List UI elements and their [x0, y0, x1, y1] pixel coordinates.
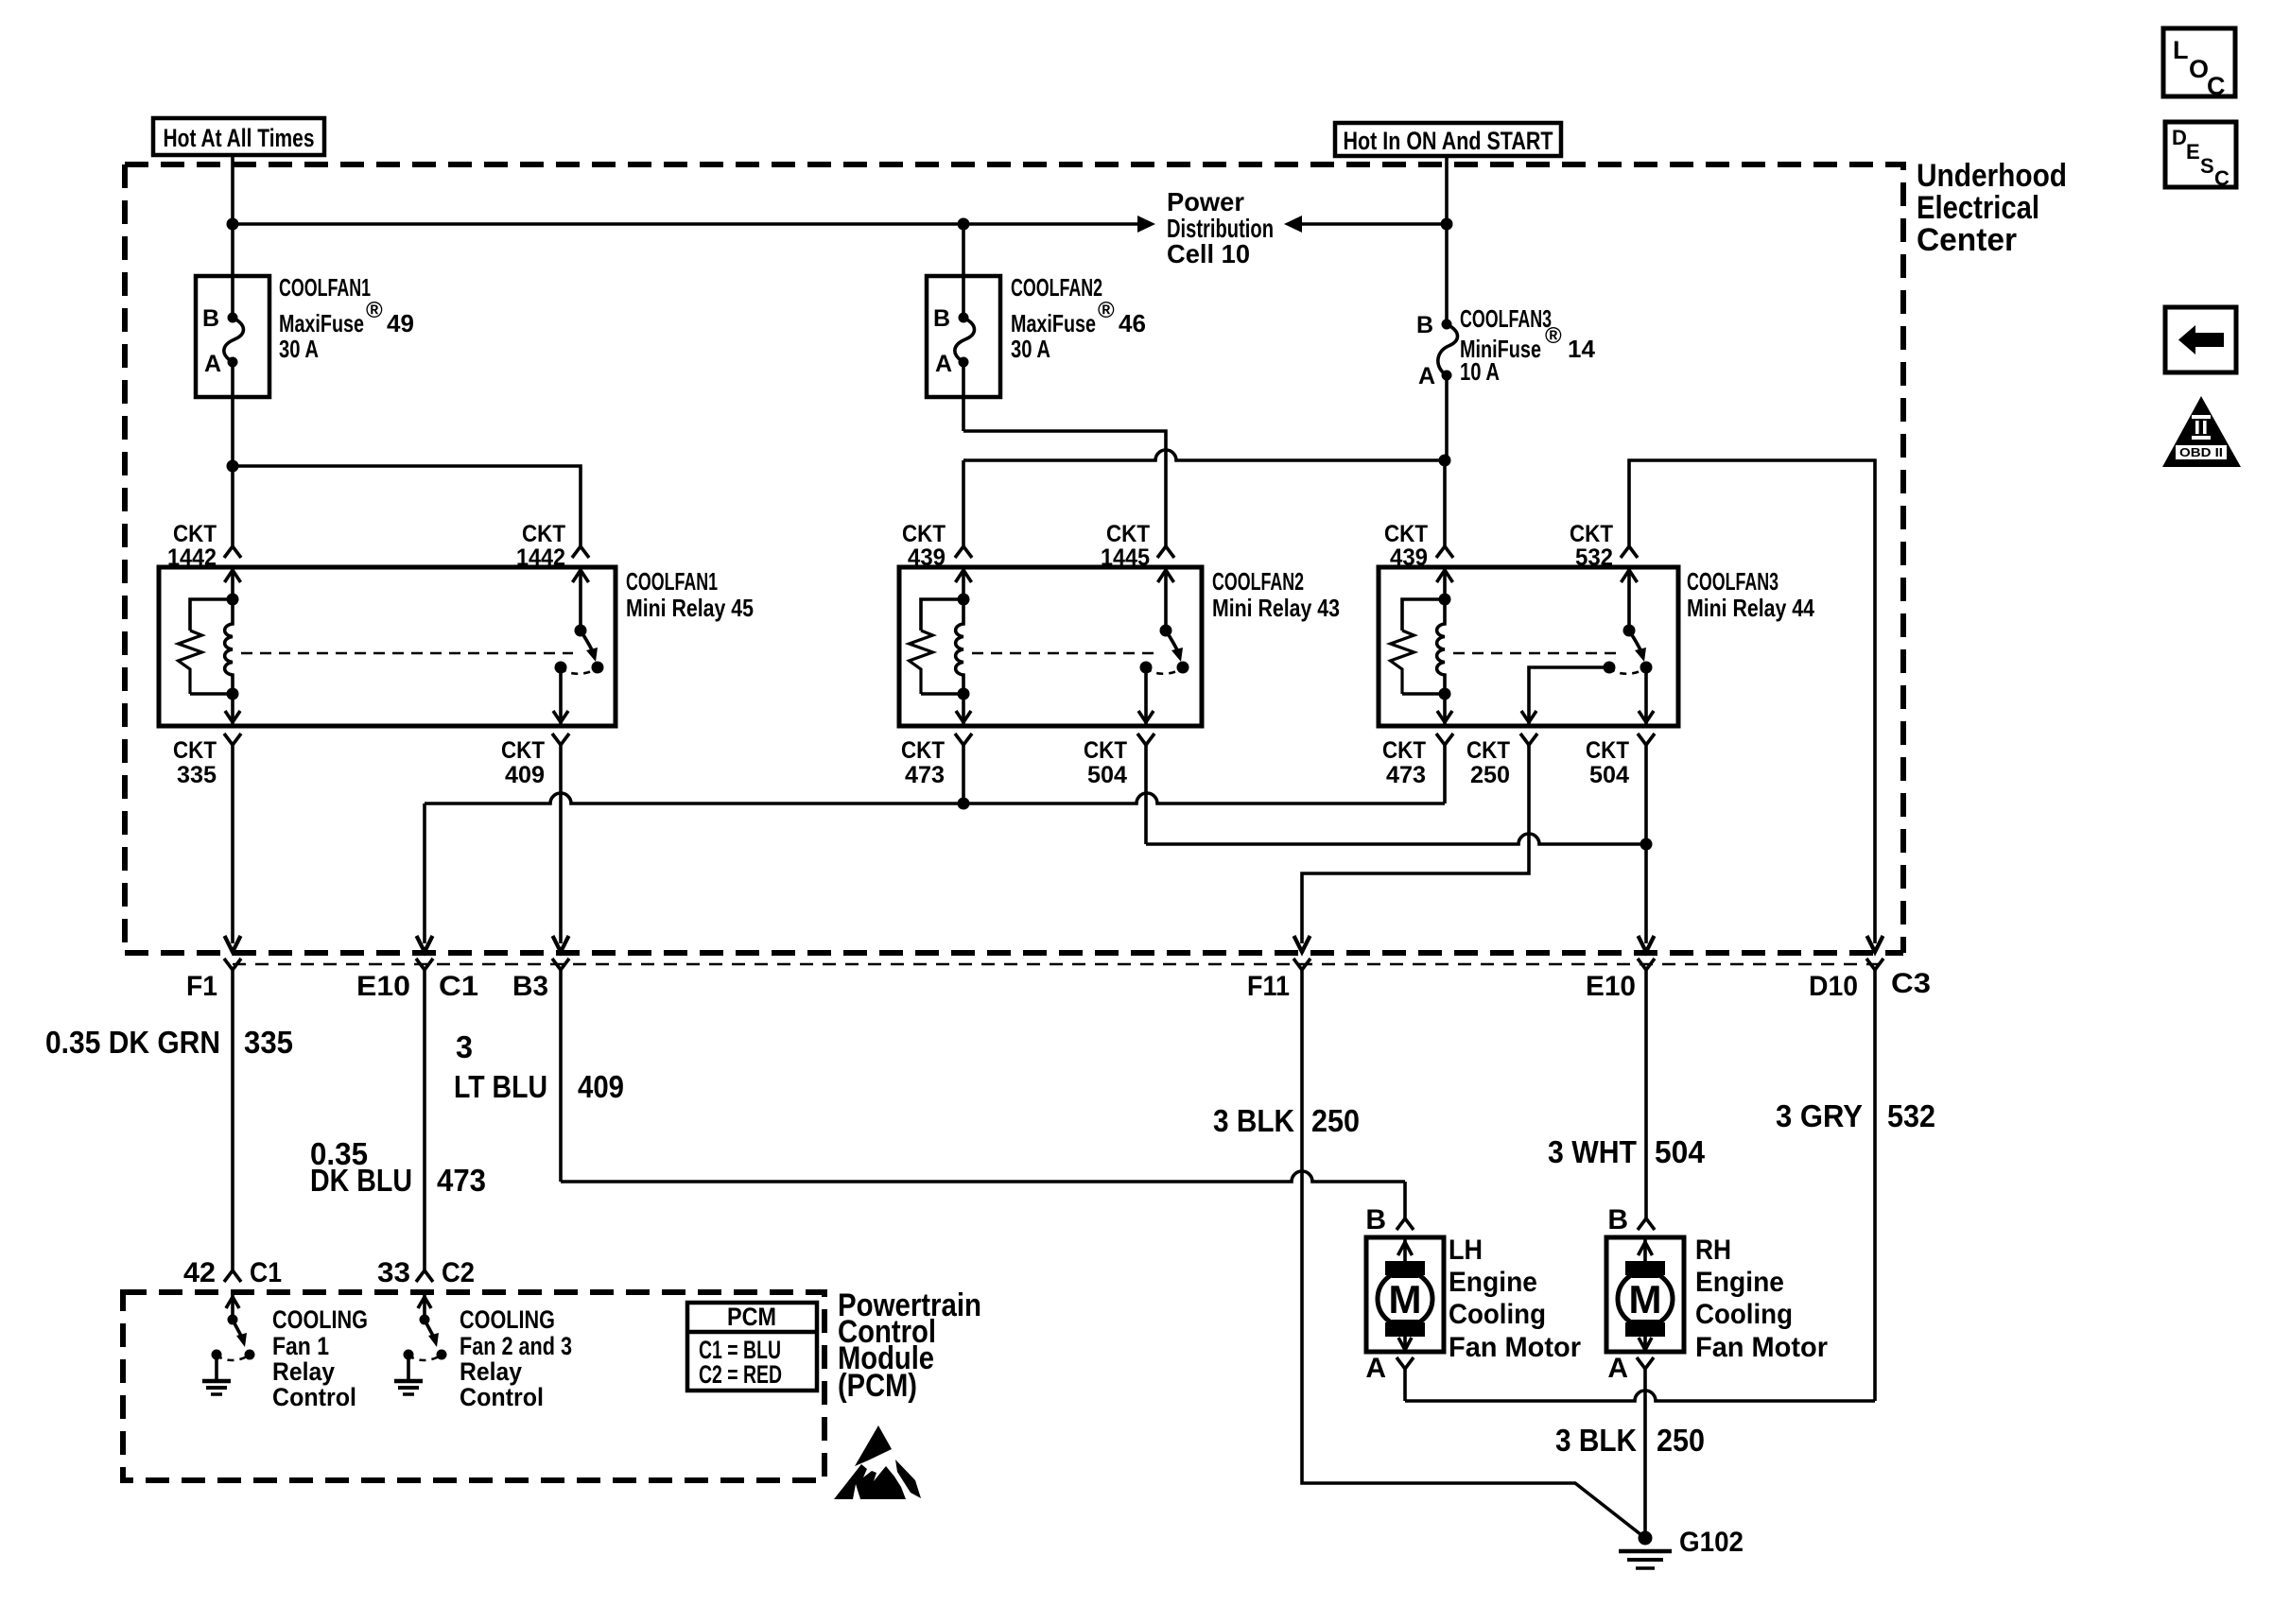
wire CKT 473 connector E10 to PCM pin 33 — [416, 970, 433, 1282]
wire CKT 473 bus — [417, 745, 1446, 952]
fuse COOLFAN1 MaxiFuse 49 30 A — [196, 276, 269, 466]
label 0.35 DK BLU 473 — [310, 1136, 486, 1198]
LH fan motor pin A — [1365, 1353, 1386, 1384]
label CKT 439 relay43 — [902, 521, 946, 571]
connector half CKT 409 — [552, 734, 569, 745]
arrow into Power Distribution (left-pointing) — [1284, 216, 1302, 233]
svg-text:504: 504 — [1087, 762, 1127, 788]
svg-text:CKT: CKT — [1084, 737, 1127, 764]
svg-text:Hot In ON And START: Hot In ON And START — [1344, 127, 1553, 155]
fuse COOLFAN2 label — [1011, 273, 1146, 363]
wire CKT 1445 fuse COOLFAN2 to relay 43 switch — [963, 431, 1166, 546]
svg-text:335: 335 — [244, 1025, 293, 1060]
svg-text:3 BLK: 3 BLK — [1555, 1423, 1637, 1458]
LH fan motor pin B — [1365, 1204, 1386, 1235]
relay COOLFAN3 Mini Relay 44 label — [1687, 567, 1814, 622]
svg-text:250: 250 — [1311, 1103, 1360, 1138]
relay COOLFAN1 Mini Relay 45 label — [626, 567, 754, 622]
connector half CKT 504 relay43 — [1137, 734, 1154, 745]
svg-text:M: M — [1389, 1277, 1422, 1322]
ground G102 — [1619, 1531, 1672, 1569]
svg-text:Cooling: Cooling — [1449, 1299, 1546, 1330]
Underhood Electrical Center label — [1917, 158, 2067, 258]
wire CKT 250 relay44 to connector F11 — [1294, 745, 1530, 952]
svg-text:Fan Motor: Fan Motor — [1695, 1332, 1828, 1363]
connector half CKT 1445 — [1157, 546, 1174, 558]
svg-text:Relay: Relay — [272, 1357, 335, 1386]
svg-text:G102: G102 — [1679, 1527, 1744, 1558]
wire CKT 504 relay44 to connector E10 — [1639, 745, 1655, 952]
wire CKT 335 relay45 to connector F1 — [225, 745, 241, 952]
label F11 — [1247, 971, 1290, 1002]
svg-text:E10: E10 — [1586, 971, 1636, 1002]
label CKT 504 relay44 — [1586, 737, 1629, 788]
wire from Hot In ON And START banner down — [1445, 156, 1449, 324]
svg-text:49: 49 — [387, 309, 414, 337]
arrow into Power Distribution (right-pointing) — [1137, 216, 1155, 233]
svg-text:B: B — [1607, 1204, 1628, 1235]
svg-text:Relay: Relay — [460, 1357, 522, 1386]
svg-text:OBD II: OBD II — [2179, 445, 2223, 459]
svg-text:Control: Control — [460, 1383, 544, 1411]
svg-text:B: B — [933, 305, 950, 332]
svg-text:Cooling: Cooling — [1695, 1299, 1793, 1330]
svg-text:Cell 10: Cell 10 — [1167, 239, 1250, 268]
svg-text:CKT: CKT — [1586, 737, 1629, 764]
LH fan motor label — [1449, 1235, 1581, 1363]
label E10 right — [1586, 971, 1636, 1002]
svg-text:COOLFAN2: COOLFAN2 — [1212, 567, 1304, 596]
label C3 — [1891, 968, 1931, 999]
connector half CKT 504 relay44 — [1638, 734, 1655, 745]
label 3 BLK 250 upper — [1213, 1103, 1360, 1138]
label 3 GRY 532 — [1776, 1098, 1935, 1133]
wire from Hot In ON And START to Power Distribution arrow — [1302, 222, 1447, 226]
wire CKT 409 connector B3 to LH fan motor — [561, 970, 1414, 1230]
label CKT 532 — [1570, 521, 1613, 571]
svg-text:MaxiFuse: MaxiFuse — [279, 309, 364, 337]
svg-text:B3: B3 — [512, 971, 548, 1002]
svg-text:A: A — [1365, 1353, 1386, 1384]
svg-text:L: L — [2173, 36, 2189, 64]
svg-text:COOLING: COOLING — [272, 1305, 368, 1334]
wire CKT 1442 branch to relay 45 switch — [233, 466, 581, 546]
RH fan motor pin A — [1607, 1353, 1628, 1384]
fuse COOLFAN3 label — [1460, 304, 1595, 386]
Hot In ON And START banner — [1335, 123, 1561, 156]
PCM Cooling Fan 1 relay control driver — [202, 1292, 255, 1394]
connector half CKT 439 relay44 — [1436, 546, 1453, 558]
PCM connector color table — [687, 1303, 817, 1391]
UEC bottom dashed border — [125, 950, 1903, 956]
label CKT 473 relay43 — [901, 737, 945, 788]
svg-text:B: B — [1416, 312, 1433, 338]
LH fan motor A connector — [1397, 1357, 1414, 1401]
OBD II symbol — [2162, 396, 2241, 467]
svg-text:O: O — [2189, 55, 2209, 83]
node CKT 473 junction — [958, 745, 970, 810]
svg-text:COOLFAN1: COOLFAN1 — [626, 567, 718, 596]
DESC legend box — [2165, 122, 2236, 190]
relay COOLFAN2 Mini Relay 43 label — [1212, 567, 1340, 622]
svg-text:Center: Center — [1917, 222, 2017, 258]
svg-text:COOLFAN3: COOLFAN3 — [1460, 304, 1552, 333]
label F1 — [186, 971, 217, 1002]
svg-text:504: 504 — [1655, 1134, 1706, 1169]
wire CKT 409 relay45 to connector B3 — [553, 745, 569, 952]
relay COOLFAN2 Mini Relay 43 — [899, 567, 1202, 726]
svg-text:Engine: Engine — [1449, 1267, 1537, 1298]
LH Engine Cooling Fan Motor — [1366, 1237, 1444, 1352]
svg-text:C: C — [2214, 166, 2230, 190]
wire CKT 335 connector F1 to PCM pin 42 — [224, 970, 241, 1282]
svg-text:Electrical: Electrical — [1917, 190, 2039, 226]
PCM Cooling Fan 2 and 3 relay control driver — [394, 1292, 447, 1394]
svg-text:473: 473 — [437, 1163, 486, 1198]
label COOLING Fan 2 and 3 Relay Control — [460, 1305, 572, 1411]
connector half CKT 473 relay43 — [955, 734, 972, 745]
label 42 C1 — [183, 1257, 282, 1288]
node CKT 439 junction at fuse COOLFAN3 output — [1439, 455, 1451, 467]
label CKT 1445 — [1101, 521, 1150, 571]
svg-text:409: 409 — [578, 1069, 624, 1104]
svg-text:CKT: CKT — [173, 521, 217, 547]
label D10 — [1809, 971, 1858, 1002]
svg-text:CKT: CKT — [1382, 737, 1426, 764]
connector E10 C1 chevron — [416, 959, 433, 970]
label B3 — [512, 971, 548, 1002]
fuse COOLFAN1 label — [279, 273, 414, 363]
svg-text:CKT: CKT — [902, 521, 946, 547]
svg-text:C1: C1 — [439, 971, 478, 1002]
svg-text:Fan 2 and 3: Fan 2 and 3 — [460, 1332, 572, 1360]
label E10 left — [356, 971, 410, 1002]
svg-text:10 A: 10 A — [1460, 357, 1500, 386]
svg-text:LH: LH — [1449, 1235, 1483, 1266]
node COOLFAN2 feed junction — [958, 218, 970, 231]
svg-text:335: 335 — [177, 762, 217, 788]
svg-text:250: 250 — [1470, 762, 1510, 788]
svg-text:A: A — [935, 351, 952, 377]
svg-text:CKT: CKT — [1106, 521, 1150, 547]
node ignition feed junction — [1441, 218, 1453, 231]
svg-text:®: ® — [1545, 323, 1562, 349]
svg-text:COOLING: COOLING — [460, 1305, 555, 1334]
svg-text:A: A — [204, 351, 221, 377]
connector half CKT 1442 left — [224, 546, 241, 558]
svg-text:CKT: CKT — [1570, 521, 1613, 547]
fuse COOLFAN3 MiniFuse 14 10 A — [1416, 312, 1458, 460]
svg-text:Engine: Engine — [1695, 1267, 1784, 1298]
svg-text:504: 504 — [1589, 762, 1629, 788]
ESD sensitive device symbol — [834, 1425, 921, 1499]
svg-text:Mini Relay 43: Mini Relay 43 — [1212, 594, 1340, 622]
svg-text:CKT: CKT — [173, 737, 217, 764]
svg-text:D10: D10 — [1809, 971, 1858, 1002]
fuse COOLFAN2 MaxiFuse 46 30 A — [927, 224, 1000, 431]
svg-text:M: M — [1629, 1277, 1662, 1322]
Powertrain Control Module dashed box — [123, 1292, 824, 1480]
svg-text:C2 = RED: C2 = RED — [699, 1360, 782, 1389]
svg-text:409: 409 — [505, 762, 545, 788]
label CKT 1442 right — [516, 521, 565, 571]
svg-text:COOLFAN2: COOLFAN2 — [1011, 273, 1102, 302]
connector half CKT 473 relay44 — [1436, 734, 1453, 745]
label CKT 439 relay44 — [1384, 521, 1428, 571]
svg-text:Hot At All Times: Hot At All Times — [164, 124, 315, 152]
Power Distribution Cell 10 label — [1167, 187, 1274, 268]
relay COOLFAN1 Mini Relay 45 — [159, 567, 616, 726]
wire CKT 532 connector D10 to LH fan motor A — [1405, 970, 1875, 1401]
svg-text:3 GRY: 3 GRY — [1776, 1098, 1863, 1133]
wire CKT 504 connector E10 to RH fan motor — [1638, 970, 1655, 1230]
svg-text:B: B — [202, 305, 219, 332]
RH fan motor label — [1695, 1235, 1828, 1363]
node CKT 504 junction — [1640, 838, 1653, 851]
svg-text:CKT: CKT — [501, 737, 545, 764]
svg-text:Mini Relay 44: Mini Relay 44 — [1687, 594, 1814, 622]
LOC legend box — [2163, 28, 2235, 100]
svg-text:0.35 DK GRN: 0.35 DK GRN — [45, 1025, 220, 1060]
RH fan motor A connector — [1637, 1357, 1654, 1538]
svg-text:14: 14 — [1568, 335, 1595, 363]
label C1 connector — [439, 971, 478, 1002]
node fuse COOLFAN1 output junction — [227, 460, 239, 473]
svg-text:E10: E10 — [356, 971, 410, 1002]
wire CKT 250 connector F11 to ground G102 — [1302, 970, 1645, 1538]
svg-text:Fan Motor: Fan Motor — [1449, 1332, 1581, 1363]
label COOLING Fan 1 Relay Control — [272, 1305, 368, 1411]
wire CKT 504 relay43 to junction — [1146, 745, 1646, 844]
svg-text:Power: Power — [1167, 187, 1244, 216]
svg-text:MaxiFuse: MaxiFuse — [1011, 309, 1096, 337]
connector F1 chevron — [224, 959, 241, 970]
svg-text:COOLFAN3: COOLFAN3 — [1687, 567, 1778, 596]
svg-text:250: 250 — [1657, 1423, 1705, 1458]
inline connector dashed line — [233, 963, 1882, 965]
label CKT 335 — [173, 737, 217, 788]
svg-text:S: S — [2200, 154, 2214, 178]
svg-text:33: 33 — [377, 1257, 410, 1288]
wire from Hot At All Times to fuse COOLFAN1 — [231, 155, 234, 276]
svg-text:C2: C2 — [442, 1257, 475, 1288]
label 33 C2 — [377, 1257, 475, 1288]
svg-text:CKT: CKT — [1466, 737, 1510, 764]
wire CKT 439 bus from relay 43 coil to fuse COOLFAN3 — [963, 450, 1445, 546]
connector half CKT 250 — [1520, 734, 1537, 745]
svg-text:®: ® — [366, 298, 383, 323]
svg-text:Mini Relay 45: Mini Relay 45 — [626, 594, 754, 622]
svg-text:F11: F11 — [1247, 971, 1290, 1002]
svg-text:COOLFAN1: COOLFAN1 — [279, 273, 371, 302]
connector D10 C3 chevron — [1866, 959, 1883, 970]
connector half CKT 439 relay43 — [955, 546, 972, 558]
RH Engine Cooling Fan Motor — [1606, 1237, 1684, 1352]
svg-text:30 A: 30 A — [1011, 335, 1050, 363]
label CKT 504 relay43 — [1084, 737, 1127, 788]
svg-text:PCM: PCM — [727, 1303, 776, 1331]
svg-text:42: 42 — [183, 1257, 216, 1288]
svg-text:C1: C1 — [250, 1257, 282, 1288]
label 3 WHT 504 — [1548, 1134, 1706, 1169]
svg-text:A: A — [1607, 1353, 1628, 1384]
svg-text:3 BLK: 3 BLK — [1213, 1103, 1294, 1138]
wire CKT 439 to relay 44 coil — [1443, 460, 1447, 546]
svg-text:CKT: CKT — [901, 737, 945, 764]
svg-text:532: 532 — [1887, 1098, 1935, 1133]
wire power bus to Power Distribution arrow — [233, 222, 1138, 226]
svg-text:46: 46 — [1119, 309, 1146, 337]
connector E10 right chevron — [1638, 959, 1655, 970]
label 3 BLK 250 lower — [1555, 1423, 1705, 1458]
label G102 — [1679, 1527, 1744, 1558]
svg-text:Underhood: Underhood — [1917, 158, 2067, 194]
svg-text:F1: F1 — [186, 971, 217, 1002]
svg-text:CKT: CKT — [522, 521, 565, 547]
svg-text:473: 473 — [1386, 762, 1426, 788]
svg-text:C: C — [2207, 72, 2226, 100]
Hot At All Times banner — [153, 118, 324, 155]
label 3 LT BLU 409 — [454, 1029, 624, 1104]
back arrow legend box — [2165, 307, 2236, 372]
svg-text:B: B — [1365, 1204, 1386, 1235]
svg-text:CKT: CKT — [1384, 521, 1428, 547]
label CKT 1442 left — [167, 521, 217, 571]
Powertrain Control Module (PCM) label — [838, 1287, 981, 1404]
svg-text:®: ® — [1098, 298, 1115, 323]
label CKT 409 — [501, 737, 545, 788]
RH fan motor pin B — [1607, 1204, 1628, 1235]
relay COOLFAN3 Mini Relay 44 — [1379, 567, 1678, 726]
svg-text:(PCM): (PCM) — [838, 1368, 917, 1404]
svg-text:473: 473 — [905, 762, 945, 788]
svg-text:D: D — [2172, 126, 2187, 149]
node battery feed junction — [227, 218, 239, 231]
connector F11 chevron — [1293, 959, 1310, 970]
connector B3 chevron — [552, 959, 569, 970]
svg-text:Control: Control — [272, 1383, 356, 1411]
connector half CKT 335 — [224, 734, 241, 745]
label CKT 473 relay44 — [1382, 737, 1426, 788]
svg-text:DK BLU: DK BLU — [310, 1163, 412, 1198]
wire CKT 1442 to relay 45 coil — [231, 466, 234, 546]
svg-text:3 WHT: 3 WHT — [1548, 1134, 1637, 1169]
svg-text:LT BLU: LT BLU — [454, 1069, 547, 1104]
svg-text:RH: RH — [1695, 1235, 1731, 1266]
connector half CKT 1442 right — [572, 546, 589, 558]
svg-text:C3: C3 — [1891, 968, 1931, 999]
svg-text:3: 3 — [456, 1029, 473, 1064]
svg-text:30 A: 30 A — [279, 335, 319, 363]
svg-text:Fan 1: Fan 1 — [272, 1332, 329, 1360]
svg-text:A: A — [1418, 363, 1435, 389]
Underhood Electrical Center dashed enclosure — [125, 164, 1903, 953]
wire CKT 532 from relay 44 switch to connector C3 D10 — [1629, 460, 1883, 952]
label 0.35 DK GRN 335 — [45, 1025, 293, 1060]
label CKT 250 — [1466, 737, 1510, 788]
connector half CKT 532 — [1621, 546, 1638, 558]
svg-text:E: E — [2186, 140, 2200, 164]
